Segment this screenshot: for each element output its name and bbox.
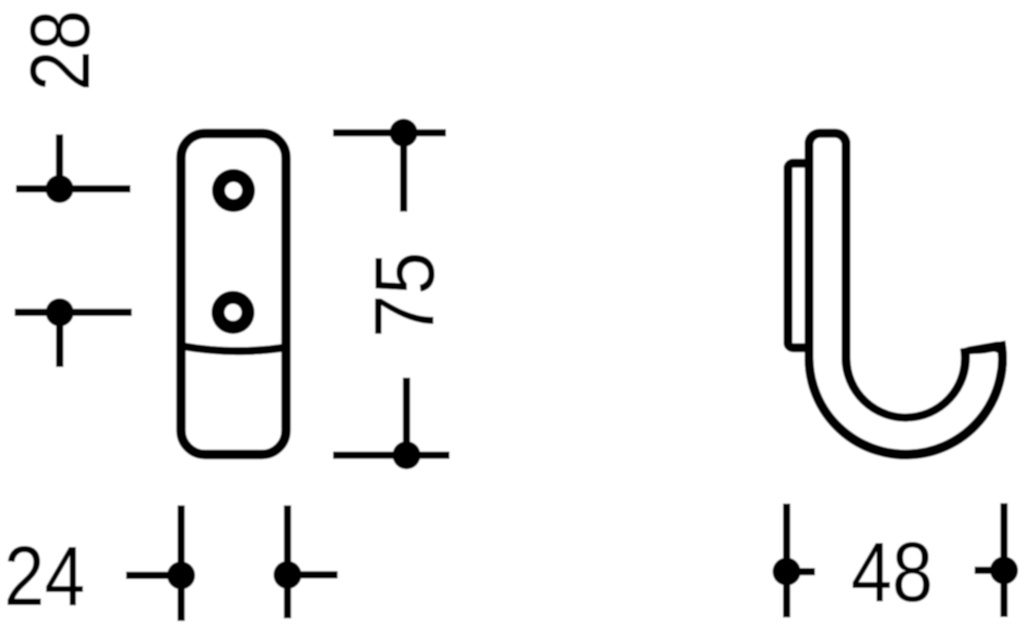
- svg-text:48: 48: [851, 525, 933, 619]
- svg-text:24: 24: [4, 529, 85, 623]
- svg-text:28: 28: [13, 10, 107, 91]
- svg-text:75: 75: [358, 252, 452, 338]
